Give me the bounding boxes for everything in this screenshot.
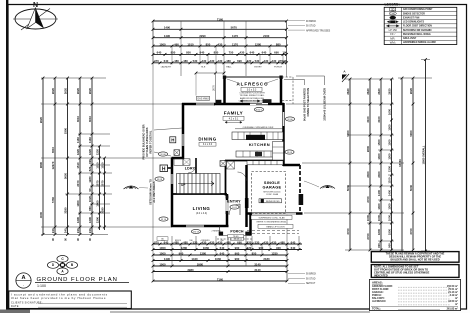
window tag [230,205,239,209]
window tag [285,117,294,121]
svg-text:640: 640 [291,246,296,250]
svg-text:1200: 1200 [388,165,392,172]
svg-text:430: 430 [218,42,223,46]
garage slab hatch [252,172,286,214]
svg-text:ALFRESCO: ALFRESCO [237,82,269,87]
garage pier west [245,198,249,208]
svg-text:490: 490 [174,42,179,46]
svg-text:960: 960 [259,246,264,250]
porch post right [245,232,249,236]
svg-text:D 01: D 01 [232,207,237,209]
H window tag [170,137,176,143]
svg-text:2620: 2620 [76,87,80,94]
smoke detector symbol right [320,186,335,189]
svg-text:LIVING: LIVING [193,206,211,211]
svg-text:1000: 1000 [159,251,166,255]
window tag [155,177,164,181]
svg-text:3700: 3700 [409,228,413,235]
svg-text:430: 430 [272,59,277,63]
svg-text:530: 530 [255,59,260,63]
svg-text:430: 430 [264,240,269,244]
svg-text:2700: 2700 [366,233,370,240]
svg-text:2160: 2160 [263,34,270,38]
porch roof dashed [217,238,253,240]
wall: left upper [182,103,185,159]
svg-text:1330: 1330 [271,251,278,255]
gas hwu [197,96,210,100]
svg-text:690: 690 [237,240,242,244]
svg-text:H: H [162,167,166,173]
svg-text:1390: 1390 [88,216,92,223]
svg-text:APPROVED TRUSSES: APPROVED TRUSSES [306,29,331,32]
svg-text:GAS HWU: GAS HWU [197,97,209,100]
svg-text:960: 960 [235,251,240,255]
svg-text:640: 640 [291,240,296,244]
svg-text:PORCH: PORCH [230,230,244,234]
svg-text:1:100: 1:100 [37,284,46,288]
svg-text:800: 800 [186,51,191,55]
svg-text:2620: 2620 [346,88,350,95]
svg-text:KITCHEN CUPBOARDS: KITCHEN CUPBOARDS [145,127,149,156]
svg-text:1000: 1000 [159,262,166,266]
stairs [177,174,221,194]
svg-text:960: 960 [235,246,240,250]
svg-text:1220: 1220 [96,148,100,155]
wall: garage south [246,212,303,215]
svg-text:6510: 6510 [51,147,55,153]
svg-text:2180: 2180 [263,257,270,261]
svg-text:1300: 1300 [388,203,392,210]
svg-text:REINFORCED: REINFORCED [266,201,280,203]
svg-text:4.2 x 5.1: 4.2 x 5.1 [229,117,239,120]
wall: hall/kitchen [225,160,227,196]
svg-text:2070: 2070 [101,180,105,187]
porch south edge [219,235,252,237]
svg-text:1900: 1900 [76,200,80,207]
right dimension chain [349,79,351,250]
svg-text:480: 480 [226,59,231,63]
laundry fixtures [174,159,183,166]
svg-text:3290: 3290 [64,207,68,214]
svg-text:900: 900 [276,246,281,250]
svg-text:3700: 3700 [346,228,350,235]
svg-text:960: 960 [179,251,184,255]
svg-text:RECESSED WALL NICHE: RECESSED WALL NICHE [403,33,431,36]
svg-text:AREA VENT: AREA VENT [403,37,417,40]
svg-text:SETOUT: SETOUT [306,283,316,285]
wall: alfresco east [280,77,283,105]
laundry door swing [188,165,196,173]
svg-text:5390: 5390 [64,127,68,134]
svg-text:2620: 2620 [366,88,370,95]
svg-text:430: 430 [210,240,215,244]
svg-text:3980: 3980 [187,268,194,272]
drawing title: GROUND FLOOR PLAN [16,273,31,288]
svg-text:480: 480 [183,59,188,63]
svg-text:W 05: W 05 [287,152,293,154]
svg-text:SUSPENDED CONC. SLAB: SUSPENDED CONC. SLAB [258,216,285,219]
copyright notes box [371,252,459,263]
svg-text:CLIENTS SIGNATURE:: CLIENTS SIGNATURE: [11,301,43,304]
svg-text:1900: 1900 [96,200,100,207]
wall: house top [182,103,284,106]
svg-text:5900: 5900 [346,130,350,137]
svg-text:H: H [171,138,174,143]
svg-text:2620: 2620 [88,87,92,94]
wall: right main [282,103,285,166]
svg-text:W 08: W 08 [160,154,166,156]
window tag [285,150,294,154]
label: suspended slab [251,215,292,219]
wall: ldry/stairs [195,158,197,174]
svg-text:1160: 1160 [88,137,92,144]
svg-text:480: 480 [183,240,188,244]
svg-text:850: 850 [252,251,257,255]
alfresco north edge [224,76,283,78]
svg-text:TROWEL FINISH TO FALL: TROWEL FINISH TO FALL [239,94,265,97]
svg-text:that have been provided to me: that have been provided to me by Hudson … [11,296,106,300]
window tag [254,107,263,111]
svg-text:1300: 1300 [377,203,381,210]
svg-text:2070: 2070 [76,180,80,187]
svg-text:SMOKE DETECTOR: SMOKE DETECTOR [403,13,425,15]
svg-text:530: 530 [193,59,198,63]
svg-text:1800: 1800 [388,228,392,235]
svg-text:-: - [23,283,24,287]
svg-text:1440: 1440 [191,257,198,261]
svg-text:3100: 3100 [366,116,370,123]
svg-text:1800: 1800 [377,228,381,235]
svg-text:INDICATED: INDICATED [374,274,388,278]
svg-text:90: 90 [88,188,92,192]
svg-text:1500: 1500 [377,139,381,146]
svg-text:m²: m² [455,302,458,306]
svg-text:900: 900 [377,243,381,248]
svg-text:12270: 12270 [51,161,55,169]
svg-text:1170: 1170 [232,42,239,46]
svg-text:LEGEND:: LEGEND: [385,3,400,7]
H tub tag [160,165,168,172]
svg-text:640: 640 [220,246,225,250]
svg-text:BRICK: BRICK [175,240,182,242]
svg-text:1300: 1300 [388,153,392,160]
svg-text:2700: 2700 [366,196,370,203]
svg-text:SETDOWN 60mm TO: SETDOWN 60mm TO [149,179,153,205]
svg-text:190: 190 [282,51,287,55]
svg-text:PORCH: PORCH [274,66,282,68]
svg-text:530: 530 [193,240,198,244]
svg-text:7160: 7160 [217,277,224,281]
svg-text:AREAS:: AREAS: [372,281,383,285]
svg-text:370: 370 [154,59,159,63]
window tag [191,229,200,233]
svg-text:90 STUD: 90 STUD [306,278,316,280]
svg-text:850: 850 [214,51,219,55]
svg-text:2300: 2300 [366,171,370,178]
svg-text:1510: 1510 [76,162,80,169]
svg-text:PROVIDE BULKHEAD OVER: PROVIDE BULKHEAD OVER [142,124,146,159]
svg-text:SETDOWN FOR CERAMIC: SETDOWN FOR CERAMIC [403,29,432,32]
svg-text:530: 530 [255,240,260,244]
svg-text:640: 640 [220,251,225,255]
elevation marker cluster [57,255,68,262]
top dimension chain [153,20,287,22]
svg-text:3.0 x 5.3: 3.0 x 5.3 [247,88,257,91]
garage pier east [299,194,304,205]
svg-text:430: 430 [218,59,223,63]
svg-text:W 10: W 10 [161,219,167,221]
svg-text:2620: 2620 [64,87,68,94]
svg-text:1380: 1380 [200,251,207,255]
svg-text:5670: 5670 [231,26,238,30]
wall: garage east (piered) [299,165,301,214]
svg-text:PANEL LIFT DOOR: PANEL LIFT DOOR [266,225,285,228]
svg-text:OVERHEAD CUPBOARDS OVER: OVERHEAD CUPBOARDS OVER [243,126,274,129]
svg-text:880: 880 [276,42,281,46]
alfresco height dim [215,73,217,104]
svg-text:FLOOR JOIST DIRECTION: FLOOR JOIST DIRECTION [403,26,432,28]
svg-text:750: 750 [229,51,234,55]
svg-text:430: 430 [202,59,207,63]
svg-text:640: 640 [157,51,162,55]
svg-text:ALFRESCO:: ALFRESCO: [372,300,386,303]
kitchen sink/appliances [246,135,265,140]
wall: laundry step [172,157,185,160]
alfresco posts [223,76,226,79]
svg-text:2620: 2620 [39,116,43,123]
wall: garage step [283,164,300,167]
wall: below kitchen [225,160,284,162]
wall niche boxes [174,150,180,156]
svg-text:90 STUD: 90 STUD [306,26,316,28]
svg-text:3010: 3010 [88,115,92,122]
svg-text:3.1 x 3.6: 3.1 x 3.6 [203,143,213,146]
entry door arcs [229,204,240,215]
svg-text:SGD 2: SGD 2 [256,110,263,112]
svg-text:1000: 1000 [388,214,392,221]
svg-text:1170: 1170 [232,34,239,38]
alfresco floor dim [240,100,260,102]
svg-text:1000: 1000 [377,214,381,221]
svg-text:1020: 1020 [88,195,92,202]
svg-text:CMD: CMD [390,13,395,15]
svg-text:EXHAUST FAN: EXHAUST FAN [403,16,420,19]
svg-text:WMₓ: WMₓ [390,41,396,45]
north arrow compass [13,2,58,30]
svg-text:90 BRICK: 90 BRICK [306,274,317,276]
svg-text:3290: 3290 [101,207,105,214]
fridge space [227,161,235,169]
section tag A right chain [342,74,349,82]
svg-text:1060: 1060 [215,257,222,261]
svg-text:GROUND FLOOR PLAN: GROUND FLOOR PLAN [37,277,118,283]
svg-text:1280: 1280 [255,42,262,46]
svg-text:1000: 1000 [159,42,166,46]
window tag [158,152,167,156]
svg-text:1490: 1490 [164,26,171,30]
kitchen island [236,151,279,157]
svg-text:3650: 3650 [64,172,68,179]
svg-text:1000: 1000 [159,246,166,250]
svg-text:5030: 5030 [409,184,413,191]
svg-text:850: 850 [171,51,176,55]
svg-text:2290: 2290 [199,34,206,38]
dimensions note box [371,265,459,278]
window: dining west [182,134,184,146]
svg-text:240: 240 [76,228,80,233]
svg-text:1300: 1300 [377,153,381,160]
wall: porch east [249,213,252,236]
svg-text:1280: 1280 [88,176,92,183]
svg-text:5760: 5760 [51,197,55,203]
svg-text:2620: 2620 [377,88,381,95]
svg-text:480: 480 [226,240,231,244]
svg-text:1490: 1490 [164,257,171,261]
svg-text:430: 430 [210,59,215,63]
svg-text:HARDWIRED SMOKE ALARM: HARDWIRED SMOKE ALARM [403,41,436,44]
svg-text:261.83 m²: 261.83 m² [447,307,459,311]
wall: alfresco west [223,77,226,105]
porch post left [219,232,223,236]
window: family north [196,103,214,105]
svg-text:640: 640 [250,51,255,55]
svg-text:1160: 1160 [76,137,80,144]
door: living to entry [226,200,228,212]
wall: living/entry [226,194,229,227]
svg-text:2620: 2620 [388,88,392,95]
svg-text:1600: 1600 [388,108,392,115]
svg-text:860: 860 [88,206,92,211]
svg-text:2070: 2070 [96,180,100,187]
svg-text:AWAY FROM DWELLING: AWAY FROM DWELLING [240,97,264,100]
svg-text:KITCHEN: KITCHEN [249,142,270,147]
svg-text:COVERED BY ROOF OVER: COVERED BY ROOF OVER [239,100,266,102]
svg-text:TOTAL:: TOTAL: [372,308,381,311]
svg-text:ALL WET AREAS: ALL WET AREAS [152,181,156,202]
svg-text:240: 240 [64,228,68,233]
svg-text:AIR CONDITIONING POINT: AIR CONDITIONING POINT [403,8,433,11]
svg-text:4000: 4000 [39,211,43,218]
svg-text:W 09: W 09 [157,179,163,181]
door jambs [226,196,229,199]
svg-text:480: 480 [174,59,179,63]
svg-text:TILE: TILE [201,66,206,68]
svg-text:370: 370 [154,240,159,244]
svg-text:1510: 1510 [101,162,105,169]
svg-text:REFER TO DETAIL: REFER TO DETAIL [149,130,153,153]
svg-text:W 06: W 06 [287,119,293,121]
svg-text:3010: 3010 [76,115,80,122]
svg-text:1010: 1010 [187,42,194,46]
garage door opening [252,212,296,214]
svg-text:1500: 1500 [388,124,392,131]
svg-text:480: 480 [280,240,285,244]
svg-text:900: 900 [388,243,392,248]
svg-text:2/290x45 LVL BEAM OVER: 2/290x45 LVL BEAM OVER [323,88,327,121]
window: living west [171,174,173,184]
svg-text:640: 640 [200,51,205,55]
svg-text:1500: 1500 [388,139,392,146]
alfresco roof dashed [282,77,293,104]
svg-text:850: 850 [206,42,211,46]
svg-text:90x90 SHS POST PAINTED: 90x90 SHS POST PAINTED [303,88,307,121]
label: porch tile [228,235,244,238]
svg-text:DINING: DINING [198,137,216,142]
svg-text:1100: 1100 [388,177,392,184]
svg-text:ENTRY: ENTRY [227,200,241,204]
sliding door: family to alfresco [250,103,268,105]
acceptance box [9,291,132,309]
porch west edge [219,226,221,236]
svg-text:2800: 2800 [366,145,370,152]
svg-text:640: 640 [164,59,169,63]
wall: left lower [171,158,174,227]
svg-text:690: 690 [237,59,242,63]
svg-text:1390: 1390 [96,216,100,223]
kitchen bench [232,132,283,140]
heavy left page edge [6,0,8,313]
svg-text:240: 240 [51,228,55,233]
svg-text:19900 OVERALL: 19900 OVERALL [423,145,426,164]
svg-text:1490: 1490 [164,34,171,38]
svg-text:240: 240 [88,228,92,233]
svg-text:7160: 7160 [217,17,224,21]
svg-text:2 RISERS: 2 RISERS [211,231,221,233]
svg-text:TILED: TILED [233,236,239,238]
svg-text:(4.0 x 4.4): (4.0 x 4.4) [196,212,207,215]
svg-text:5030: 5030 [346,184,350,191]
wall: under stairs [172,193,227,195]
svg-text:430: 430 [264,59,269,63]
svg-text:HALL: HALL [226,65,232,68]
svg-text:1390: 1390 [76,216,80,223]
svg-text:1060: 1060 [203,246,210,250]
svg-text:430: 430 [272,240,277,244]
bottom-left scan smudge [0,310,30,313]
svg-text:BUILDER AND SHALL NOT BE RE-US: BUILDER AND SHALL NOT BE RE-USED [390,258,439,262]
svg-text:SD: SD [391,8,395,11]
svg-text:LAUNDRY: LAUNDRY [161,65,172,68]
svg-text:320: 320 [247,240,252,244]
svg-text:1280: 1280 [181,246,188,250]
label: panel door [258,224,293,228]
wall: living south [171,225,229,228]
svg-text:DG 05: DG 05 [193,232,200,234]
bottom dimension chain [153,243,302,245]
svg-text:1510: 1510 [96,162,100,169]
svg-text:1000: 1000 [366,214,370,221]
svg-text:FAMILY: FAMILY [224,111,243,116]
smoke detector symbol left [124,186,139,189]
svg-text:820: 820 [88,166,92,171]
wall: garage west [245,165,248,227]
svg-text:1400: 1400 [388,189,392,196]
svg-text:GARAGE: GARAGE [263,185,282,190]
svg-text:A: A [21,275,25,281]
svg-text:320: 320 [247,59,252,63]
pantry row [247,161,283,165]
svg-text:3140: 3140 [254,268,261,272]
svg-text:690: 690 [274,51,279,55]
svg-text:5900: 5900 [409,130,413,137]
svg-text:430: 430 [240,51,245,55]
svg-text:3100: 3100 [377,116,381,123]
window: kitchen east [282,112,284,126]
svg-text:2980: 2980 [197,262,204,266]
svg-text:LED DOWNLIGHTS: LED DOWNLIGHTS [403,22,425,24]
left dimension chain [42,78,44,235]
svg-text:2620: 2620 [51,87,55,94]
